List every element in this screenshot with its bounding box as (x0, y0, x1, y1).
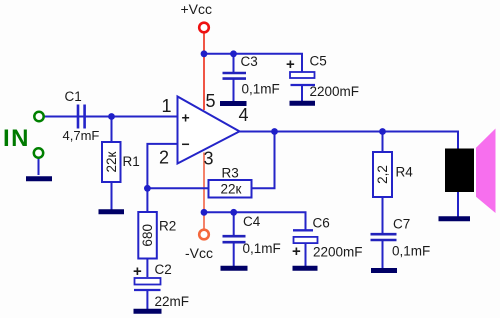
svg-text:C4: C4 (243, 214, 261, 229)
svg-text:+: + (133, 263, 142, 280)
svg-text:4,7mF: 4,7mF (63, 128, 100, 143)
svg-text:R1: R1 (123, 154, 140, 169)
svg-text:+: + (292, 243, 301, 260)
svg-text:2,2: 2,2 (375, 165, 390, 184)
svg-text:5: 5 (206, 91, 216, 111)
svg-text:-Vcc: -Vcc (185, 245, 213, 261)
svg-text:C2: C2 (155, 262, 172, 277)
svg-text:0,1mF: 0,1mF (243, 241, 281, 256)
svg-text:1: 1 (162, 96, 172, 116)
svg-text:+Vcc: +Vcc (181, 1, 213, 17)
svg-text:2200mF: 2200mF (313, 245, 363, 260)
svg-text:0,1mF: 0,1mF (392, 244, 430, 259)
svg-text:C6: C6 (313, 216, 330, 231)
svg-text:2: 2 (159, 148, 169, 168)
svg-text:3: 3 (204, 149, 214, 169)
svg-text:22mF: 22mF (155, 294, 190, 309)
svg-text:IN: IN (3, 125, 30, 152)
svg-text:−: − (182, 136, 190, 152)
svg-text:+: + (182, 110, 190, 126)
svg-text:C1: C1 (65, 89, 82, 104)
svg-text:22к: 22к (221, 182, 242, 197)
svg-text:+: + (286, 56, 295, 73)
svg-text:0,1mF: 0,1mF (242, 82, 280, 97)
svg-text:2200mF: 2200mF (310, 84, 360, 99)
svg-text:4: 4 (239, 105, 249, 125)
svg-text:C3: C3 (241, 54, 258, 69)
svg-text:R2: R2 (159, 219, 176, 234)
svg-text:C5: C5 (310, 54, 327, 69)
svg-text:R3: R3 (222, 166, 239, 181)
svg-text:C7: C7 (393, 217, 410, 232)
svg-text:22к: 22к (104, 151, 119, 172)
svg-text:R4: R4 (396, 165, 414, 180)
svg-text:680: 680 (140, 224, 155, 247)
